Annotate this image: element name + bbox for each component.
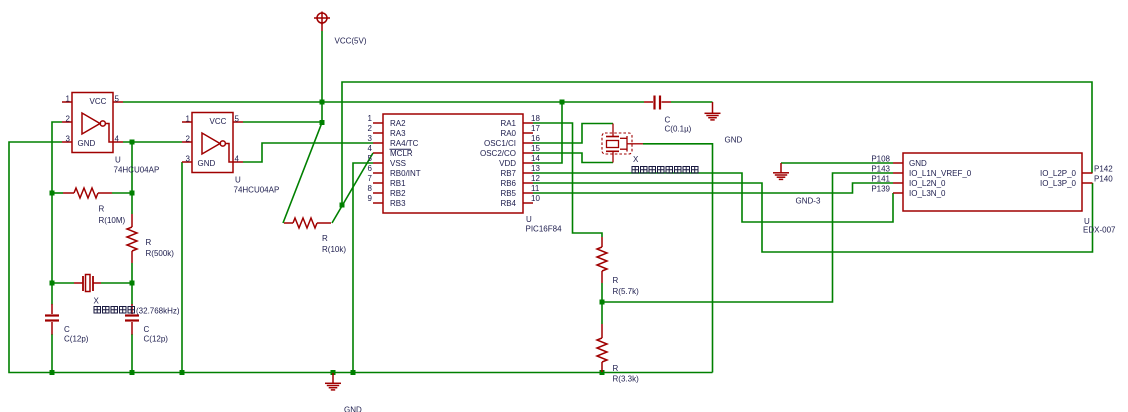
svg-text:RA0: RA0	[500, 129, 516, 138]
svg-text:12: 12	[531, 174, 540, 183]
wire crystal row ends	[52, 282, 74, 284]
capacitor C(0.1u)	[644, 96, 671, 110]
wire inv2 out to PIC RA4/TC	[243, 143, 373, 162]
node bottom rail r3.3k	[600, 370, 605, 375]
wire vertical x=132 osc net	[131, 142, 133, 214]
svg-text:GND: GND	[198, 159, 216, 168]
resistor R(5.7k) vertical	[597, 237, 607, 283]
svg-text:VCC: VCC	[90, 97, 107, 106]
wire VSS down	[353, 163, 373, 373]
svg-text:RB7: RB7	[500, 169, 516, 178]
node bottom rail cap right	[130, 370, 135, 375]
node bottom rail inv2 gnd	[180, 370, 185, 375]
svg-text:GND-3: GND-3	[796, 197, 821, 206]
svg-text:R: R	[99, 205, 105, 214]
wire OSC1 to resonator top	[533, 124, 613, 144]
svg-text:P142: P142	[1094, 165, 1113, 174]
svg-text:R: R	[322, 234, 328, 243]
svg-text:8: 8	[368, 184, 373, 193]
svg-text:11: 11	[531, 184, 540, 193]
wire inv1 out to inv2 in y=142	[123, 141, 182, 143]
wire inv2 pin5 to vcc stem y=122	[243, 121, 322, 123]
svg-text:IO_L3P_0: IO_L3P_0	[1040, 179, 1077, 188]
svg-text:MCLR: MCLR	[390, 149, 413, 158]
svg-text:2: 2	[66, 115, 71, 124]
svg-text:RB5: RB5	[500, 189, 516, 198]
ceramic resonator X	[602, 124, 643, 163]
wire VDD branch	[533, 102, 562, 163]
svg-text:17: 17	[531, 124, 540, 133]
svg-text:C(0.1µ): C(0.1µ)	[665, 125, 692, 134]
svg-text:R(500k): R(500k)	[146, 249, 175, 258]
svg-text:R: R	[613, 364, 619, 373]
svg-text:GND: GND	[344, 406, 362, 412]
svg-text:R: R	[613, 276, 619, 285]
node crystal left	[50, 281, 55, 286]
ground symbol bottom GND	[325, 373, 341, 390]
op-amp U1 inverter 74HCU04AP	[62, 93, 123, 153]
wire RB6 to P140	[533, 183, 1093, 252]
svg-text:18: 18	[531, 114, 540, 123]
svg-text:2: 2	[186, 135, 191, 144]
svg-text:GND: GND	[909, 159, 927, 168]
svg-text:9: 9	[368, 194, 373, 203]
svg-text:RB4: RB4	[500, 199, 516, 208]
svg-text:EDX-007: EDX-007	[1083, 226, 1116, 235]
power symbol VCC(5V)	[314, 12, 330, 32]
svg-text:16: 16	[531, 134, 540, 143]
svg-text:7: 7	[368, 174, 373, 183]
svg-text:1: 1	[368, 114, 373, 123]
svg-text:IO_L2P_0: IO_L2P_0	[1040, 169, 1077, 178]
svg-text:P141: P141	[871, 175, 890, 184]
svg-text:IO_L2N_0: IO_L2N_0	[909, 179, 946, 188]
svg-text:3: 3	[368, 134, 373, 143]
resistor R(10M) horizontal	[63, 188, 112, 198]
svg-text:RB2: RB2	[390, 189, 406, 198]
wire R10M row ends	[52, 192, 63, 194]
svg-text:4: 4	[235, 155, 240, 164]
capacitor C(12p) left	[45, 304, 59, 335]
svg-text:R(10k): R(10k)	[322, 245, 346, 254]
wire RB5 to P141	[533, 183, 893, 193]
svg-text:C: C	[144, 325, 150, 334]
svg-text:GND: GND	[78, 139, 96, 148]
svg-text:RB1: RB1	[390, 179, 406, 188]
svg-text:RA3: RA3	[390, 129, 406, 138]
capacitor C(12p) right	[125, 304, 139, 335]
node crystal right	[130, 281, 135, 286]
svg-text:U: U	[235, 176, 241, 185]
wire MCLR diagonal	[332, 153, 373, 223]
svg-text:5: 5	[115, 95, 120, 104]
ground symbol GND-3	[773, 163, 789, 179]
wire R chain verticals x=602	[601, 283, 603, 324]
ground symbol near C(0.1u)	[705, 102, 721, 120]
svg-text:R(5.7k): R(5.7k)	[613, 287, 640, 296]
crystal X 32.768kHz	[74, 275, 101, 292]
IC PIC16F84	[373, 114, 533, 213]
wire inv1 pin2 left and down x=52	[52, 122, 62, 193]
svg-text:GND: GND	[725, 136, 743, 145]
svg-text:R: R	[146, 238, 152, 247]
wire inv2 pin3 down x=182	[181, 162, 183, 373]
node bottom rail vss	[351, 370, 356, 375]
wire OSC2 to resonator bottom	[533, 153, 613, 163]
svg-text:C: C	[665, 116, 671, 125]
wire C0.1u right to gnd	[671, 101, 713, 103]
svg-text:10: 10	[531, 194, 540, 203]
svg-text:R(3.3k): R(3.3k)	[613, 375, 640, 384]
svg-text:U: U	[526, 215, 532, 224]
node vcc stem / inv2 pin5	[320, 120, 325, 125]
svg-text:RB3: RB3	[390, 199, 406, 208]
svg-text:3: 3	[66, 135, 71, 144]
op-amp U2 inverter 74HCU04AP	[182, 113, 243, 173]
svg-text:RB0/INT: RB0/INT	[390, 169, 421, 178]
wire inv1 pin3 to ground big L and bottom rail	[9, 142, 713, 373]
wire x=52 vertical segments	[51, 193, 53, 305]
svg-text:P143: P143	[871, 165, 890, 174]
node MCLR diagonal	[340, 203, 345, 208]
svg-text:R(10M): R(10M)	[99, 216, 126, 225]
svg-text:OSC1/CI: OSC1/CI	[484, 139, 516, 148]
svg-text:4: 4	[115, 135, 120, 144]
kanji label ceramic resonator	[632, 167, 698, 174]
wire VCC top horizontal y=102	[123, 101, 644, 103]
node vcc stem / top wire	[320, 100, 325, 105]
svg-text:C(12p): C(12p)	[144, 335, 169, 344]
svg-text:RA2: RA2	[390, 119, 406, 128]
svg-text:VCC: VCC	[210, 117, 227, 126]
svg-text:VDD: VDD	[499, 159, 516, 168]
svg-text:X: X	[633, 155, 639, 164]
svg-text:(32.768kHz): (32.768kHz)	[136, 307, 180, 316]
svg-text:3: 3	[186, 155, 191, 164]
svg-text:RB6: RB6	[500, 179, 516, 188]
svg-text:C: C	[64, 325, 70, 334]
svg-text:IO_L3N_0: IO_L3N_0	[909, 189, 946, 198]
svg-text:VSS: VSS	[390, 159, 406, 168]
svg-text:1: 1	[186, 115, 191, 124]
svg-text:IO_L1N_VREF_0: IO_L1N_VREF_0	[909, 169, 972, 178]
svg-text:14: 14	[531, 154, 540, 163]
svg-text:6: 6	[368, 164, 373, 173]
wire P143 to resistor junction	[602, 173, 893, 302]
svg-text:RA4/TC: RA4/TC	[390, 139, 419, 148]
svg-text:RA1: RA1	[500, 119, 516, 128]
node bottom rail cap left	[50, 370, 55, 375]
svg-text:74HCU04AP: 74HCU04AP	[234, 186, 280, 195]
node inv1 out / inv2 in	[130, 140, 135, 145]
svg-text:1: 1	[66, 95, 71, 104]
svg-text:13: 13	[531, 164, 540, 173]
node VDD branch	[560, 100, 565, 105]
wire P108 to GND-3	[781, 162, 893, 164]
resistor R(500k) vertical	[127, 214, 137, 263]
svg-text:P108: P108	[871, 155, 890, 164]
wire resonator center to ground rail	[643, 144, 713, 373]
svg-text:P140: P140	[1094, 175, 1113, 184]
svg-text:5: 5	[235, 115, 240, 124]
svg-text:U: U	[115, 156, 121, 165]
kanji label 水晶振動子(32.768kHz)	[94, 307, 135, 314]
svg-text:OSC2/CO: OSC2/CO	[480, 149, 516, 158]
wire top long rail to EDX P142	[342, 82, 1092, 205]
svg-text:P139: P139	[871, 185, 890, 194]
svg-text:VCC(5V): VCC(5V)	[335, 37, 367, 46]
node bottom rail gnd symbol	[331, 370, 336, 375]
svg-text:X: X	[94, 297, 100, 306]
IC EDX-007	[893, 153, 1093, 211]
svg-text:C(12p): C(12p)	[64, 335, 89, 344]
svg-text:74HCU04AP: 74HCU04AP	[114, 166, 160, 175]
svg-text:2: 2	[368, 124, 373, 133]
svg-text:4: 4	[368, 144, 373, 153]
wire VCC stem x=322	[321, 31, 323, 123]
resistor R(10k) horizontal	[284, 218, 331, 228]
wire RA1 to R5.7k	[533, 123, 602, 237]
svg-text:5: 5	[368, 154, 373, 163]
resistor R(3.3k) vertical	[597, 324, 607, 372]
wire RB7 to P139	[533, 173, 893, 222]
svg-text:PIC16F84: PIC16F84	[526, 225, 563, 234]
node R10M left	[50, 191, 55, 196]
wire diagonal vcc to R10k left	[283, 123, 322, 224]
node R10M right	[130, 191, 135, 196]
svg-text:15: 15	[531, 144, 540, 153]
node R divider tap	[600, 300, 605, 305]
